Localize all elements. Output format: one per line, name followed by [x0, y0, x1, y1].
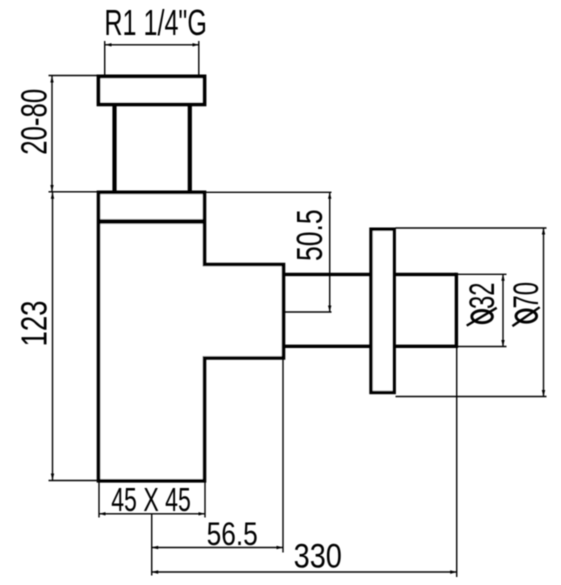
svg-text:123: 123 — [14, 301, 55, 347]
outlet pipe — [284, 273, 457, 348]
svg-text:32: 32 — [463, 283, 502, 310]
dimension 50.5 — [206, 192, 332, 312]
svg-text:45 X 45: 45 X 45 — [111, 481, 191, 518]
trap body with outlet shoulder — [99, 192, 284, 481]
body nut joint thick line — [97, 219, 206, 224]
dimension 45 X 45 — [99, 481, 205, 518]
body centerline extension — [151, 514, 153, 576]
svg-text:50.5: 50.5 — [289, 209, 330, 261]
svg-text:20-80: 20-80 — [13, 89, 54, 155]
dimension 20-80 — [13, 76, 97, 192]
wall flange rosette — [371, 229, 394, 392]
inlet neck tube — [115, 104, 190, 193]
dimension R1 1/4"G — [104, 2, 206, 74]
svg-text:330: 330 — [294, 538, 342, 576]
dimension diameter 70 — [396, 228, 547, 397]
dimension 330 — [152, 348, 457, 577]
dimension diameter 32 — [458, 274, 507, 346]
dimension 123 — [14, 192, 98, 480]
svg-text:70: 70 — [507, 282, 546, 309]
svg-text:R1 1/4"G: R1 1/4"G — [104, 2, 206, 43]
dimension 56.5 — [152, 358, 283, 553]
top inlet nut flange — [99, 76, 205, 104]
